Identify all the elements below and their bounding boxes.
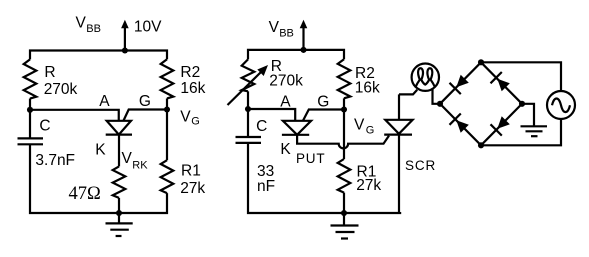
svg-text:PUT: PUT <box>296 151 325 166</box>
node VBB supply arrow (10V) <box>121 20 129 54</box>
rheostat R 270k (circuit 2) <box>228 59 269 105</box>
resistor R 270k (circuit 1) <box>24 59 37 98</box>
node A junction dot (circuit 2) <box>245 106 251 112</box>
wire: circuit-1 left branch lower and bottom rail <box>30 144 167 213</box>
resistor R1 27k (circuit 1) <box>161 160 174 193</box>
node bridge bottom vertex <box>478 142 484 148</box>
node bridge left vertex <box>437 101 443 107</box>
ground (earth, right of bridge) <box>521 126 548 136</box>
wire: circuit-1 right branch through VG node <box>166 98 168 160</box>
svg-text:K: K <box>95 141 106 158</box>
svg-text:RK: RK <box>132 160 148 172</box>
resistor 47 ohm <box>113 166 126 198</box>
svg-text:270k: 270k <box>44 81 78 98</box>
wire: circuit-1 top rail VBB <box>30 51 167 60</box>
wire: node A to PUT anode (circuit 2) <box>248 109 295 120</box>
svg-text:BB: BB <box>86 23 101 35</box>
svg-text:V: V <box>180 108 191 125</box>
node A junction dot (circuit 1) <box>27 107 33 113</box>
resistor R1 27k (circuit 2) <box>338 159 351 193</box>
diode D2 (top-right) <box>491 72 510 91</box>
node VBB supply arrow (circuit 2) <box>300 20 308 53</box>
wire: R1 to bottom rail (circuit 2) <box>343 193 345 213</box>
label R2 16k (circuit 2) <box>355 65 380 97</box>
label VBB (circuit 2) <box>269 19 294 40</box>
wire: node A to PUT anode <box>30 110 119 121</box>
wire: lamp to SCR anode <box>399 90 417 95</box>
wire: VG node to PUT gate <box>124 110 168 121</box>
wire: AC source to bridge bottom vertex <box>481 119 561 145</box>
wire: circuit-2 left branch lower and bottom rail <box>248 143 400 213</box>
svg-text:A: A <box>99 93 110 110</box>
capacitor C 33nF (circuit 2) <box>236 137 262 143</box>
svg-text:16k: 16k <box>180 80 205 97</box>
AC source V1 <box>547 91 575 119</box>
svg-text:270k: 270k <box>269 72 303 89</box>
diode D4 (bottom-right) <box>491 116 510 135</box>
label VRK <box>122 150 149 171</box>
node cathode-ground junction dot <box>116 210 122 216</box>
wire: lamp to bridge left vertex <box>433 89 441 104</box>
diode bridge frame <box>440 62 522 145</box>
ground (circuit 1) <box>106 213 133 236</box>
svg-text:K: K <box>280 141 291 158</box>
label VG (circuit 1) <box>180 108 200 127</box>
svg-text:SCR: SCR <box>405 158 436 173</box>
label R1 27k <box>180 163 205 197</box>
node VG junction dot (circuit 1) <box>164 106 170 112</box>
node bridge right vertex <box>519 101 525 107</box>
wire: PUT cathode to SCR gate with hop over R1 wire <box>297 135 389 149</box>
svg-text:16k: 16k <box>355 80 380 97</box>
svg-text:G: G <box>366 125 375 137</box>
node ground junction dot (circuit 2) <box>341 210 347 216</box>
svg-text:BB: BB <box>279 28 294 40</box>
capacitor C 3.7nF (circuit 1) <box>18 138 44 144</box>
wire: PUT cathode down <box>118 135 120 167</box>
svg-text:10V: 10V <box>134 19 162 36</box>
label VG (circuit 2) <box>354 117 374 137</box>
svg-text:V: V <box>122 150 133 167</box>
diode D3 (bottom-left) <box>450 114 469 133</box>
svg-text:V: V <box>76 14 87 31</box>
svg-text:nF: nF <box>257 178 275 195</box>
wire: circuit-2 right branch through VG node <box>343 98 345 159</box>
label R1 27k (circuit 2) <box>356 164 381 195</box>
wire: circuit-2 left branch middle <box>247 91 249 136</box>
ground (circuit 2) <box>331 213 359 239</box>
wire: bridge top vertex to AC source <box>481 62 561 91</box>
node VG junction dot (circuit 2) <box>341 106 347 112</box>
label R 270k <box>44 64 78 98</box>
svg-text:G: G <box>317 94 329 111</box>
svg-text:27k: 27k <box>180 180 205 197</box>
svg-text:V: V <box>354 117 365 134</box>
svg-text:V: V <box>269 19 280 36</box>
node bridge top vertex <box>478 59 484 65</box>
label VBB (circuit 1) <box>76 14 101 35</box>
svg-text:27k: 27k <box>356 177 381 194</box>
svg-text:G: G <box>139 93 151 110</box>
svg-text:C: C <box>256 118 267 135</box>
lamp DS1 <box>412 63 439 90</box>
PUT U1 (circuit 2) <box>282 121 311 135</box>
svg-text:A: A <box>280 94 291 111</box>
wire: circuit-1 left branch middle <box>29 99 31 138</box>
SCR Q1 <box>384 94 412 213</box>
label R2 16k <box>180 64 205 97</box>
label R 270k (circuit 2) <box>269 58 303 89</box>
diode D1 (top-left) <box>450 75 469 94</box>
wire: VG node to PUT gate (circuit 2) <box>303 110 344 121</box>
wire: circuit-2 top rail VBB <box>248 50 344 60</box>
svg-text:3.7nF: 3.7nF <box>35 152 75 169</box>
svg-text:R2: R2 <box>180 64 200 81</box>
wire: bridge right vertex to earth ground <box>522 104 534 126</box>
PUT (circuit 1) <box>106 121 132 135</box>
wire: 47 ohm to bottom rail <box>118 198 120 213</box>
svg-text:R1: R1 <box>181 163 201 180</box>
resistor R2 16k (circuit 2) <box>338 59 351 98</box>
svg-text:R: R <box>44 64 55 81</box>
svg-text:G: G <box>191 116 200 128</box>
svg-text:47Ω: 47Ω <box>69 184 101 204</box>
svg-text:C: C <box>39 118 50 135</box>
label 33 nF <box>257 163 275 195</box>
resistor R2 16k (circuit 1) <box>161 59 174 98</box>
